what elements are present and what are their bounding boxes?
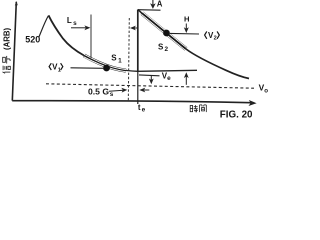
- peak reference line: [138, 9, 161, 12]
- kanji 時: [190, 105, 198, 112]
- Ls left arrow: [71, 27, 87, 29]
- y-axis label 信号 (ARB) rotated: [3, 28, 12, 74]
- x-axis label 時間 (kanji drawn): [190, 105, 206, 112]
- arrow H: [185, 24, 187, 30]
- x-axis arrowhead: [249, 100, 257, 106]
- kanji 信 (rotated): [3, 66, 11, 74]
- svg-text:A: A: [157, 0, 163, 8]
- curve 1 hatched thick band: [84, 54, 126, 71]
- x-axis: [12, 101, 251, 103]
- curve 2 hatched thick band: [138, 10, 143, 15]
- leader 520: [39, 16, 48, 37]
- label V2 in angle brackets: [205, 31, 220, 42]
- label V1 in angle brackets: [49, 63, 63, 74]
- leader V1: [71, 67, 105, 70]
- 0.5Gs left-pointing arrow: [144, 89, 149, 91]
- curve 1 (thin upper part): [49, 15, 85, 55]
- Ls left boundary line: [90, 15, 92, 59]
- Ve level line: [138, 70, 197, 71]
- curve 1 thin continuation to te line: [84, 56, 138, 72]
- te marker line below Ve: [137, 72, 139, 105]
- Ve lower short line: [139, 74, 160, 77]
- Ve gap down arrow: [150, 76, 152, 81]
- svg-text:H: H: [184, 14, 189, 23]
- kanji 号 (rotated): [3, 56, 10, 64]
- Ve gap up arrow: [185, 77, 187, 85]
- S2 level reference line: [170, 32, 199, 35]
- curve 2 rising edge: [137, 10, 139, 72]
- Ls right arrow: [134, 27, 137, 29]
- Ls right boundary dashed line: [128, 18, 129, 101]
- sample point S1 dot: [103, 65, 110, 72]
- y-axis arrowhead: [15, 1, 18, 6]
- curve 2 thin tail: [186, 49, 249, 79]
- V0 dashed level line: [46, 84, 254, 88]
- svg-text:(ARB): (ARB): [3, 28, 12, 50]
- sample point S2 dot: [163, 30, 170, 37]
- svg-text:FIG. 20: FIG. 20: [220, 110, 253, 120]
- svg-text:520: 520: [25, 34, 40, 44]
- y-axis: [12, 2, 16, 101]
- 0.5Gs right-pointing arrow: [109, 90, 124, 91]
- arrow A: [152, 0, 154, 5]
- kanji 間: [200, 105, 207, 112]
